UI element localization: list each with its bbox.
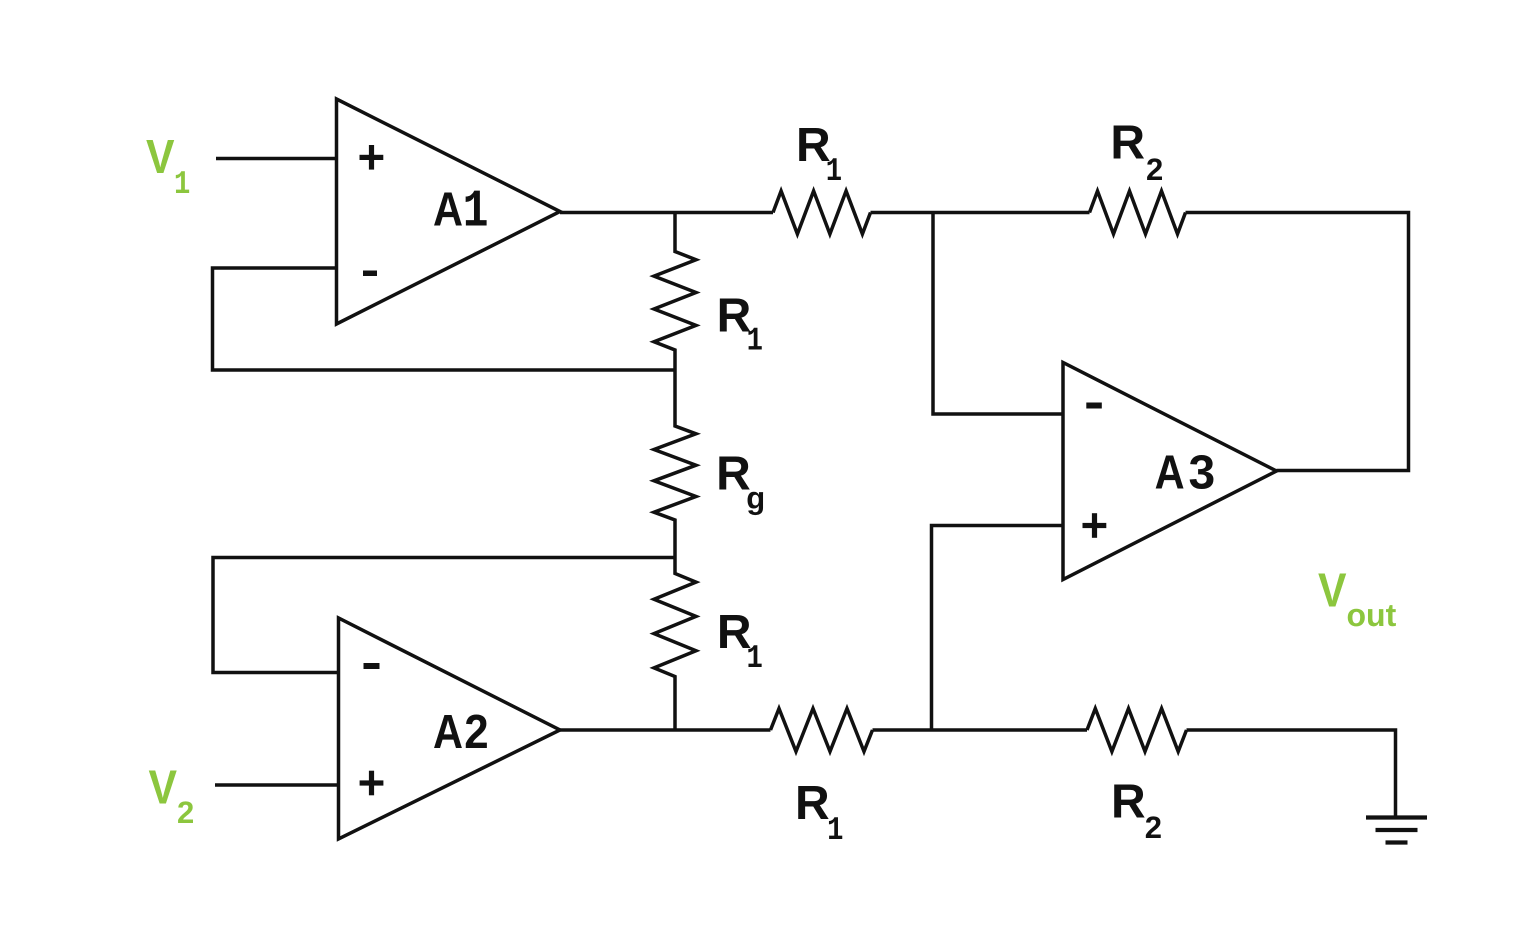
- label Rg: [716, 448, 765, 516]
- resistor R1 top vertical: [654, 213, 696, 371]
- svg-text:R: R: [795, 777, 830, 830]
- label R1 top horizontal: [796, 119, 842, 190]
- A3 noninverting pin marker: [1083, 523, 1107, 528]
- ground: [1366, 815, 1427, 819]
- label R2 bottom: [1111, 776, 1162, 846]
- wire A3 inverting input branch: [933, 213, 1063, 415]
- svg-text:V: V: [149, 762, 178, 815]
- svg-text:1: 1: [174, 166, 190, 203]
- op-amp A1 label: [433, 182, 488, 242]
- resistor Rg: [654, 370, 696, 558]
- A2 inverting pin marker: [364, 663, 380, 669]
- node V1 label: [146, 131, 190, 203]
- resistor R1 bottom horizontal: [771, 709, 873, 752]
- op-amp A1: [337, 99, 561, 324]
- wire V1 to A1 noninverting input: [216, 157, 337, 161]
- wire A2 inverting feedback: [213, 558, 675, 673]
- svg-text:V: V: [1318, 565, 1347, 618]
- wire R1 to R2 top: [871, 211, 1090, 215]
- svg-text:g: g: [746, 481, 765, 516]
- svg-text:R: R: [1111, 776, 1146, 829]
- wire A3 noninverting input branch: [932, 526, 1064, 731]
- svg-text:A: A: [433, 706, 463, 759]
- svg-text:A: A: [1155, 447, 1185, 500]
- label R1 lower vertical: [717, 606, 763, 677]
- A2 noninverting pin marker: [360, 780, 384, 785]
- A1 noninverting pin marker: [360, 155, 384, 160]
- node V2 label: [149, 762, 195, 831]
- svg-text:1: 1: [827, 812, 843, 849]
- svg-text:out: out: [1347, 597, 1397, 633]
- svg-text:2: 2: [464, 706, 488, 759]
- svg-text:R: R: [1110, 117, 1145, 170]
- wire R2 to A3 output feedback corner: [1186, 213, 1409, 471]
- svg-text:A: A: [433, 184, 463, 237]
- wire A1 output to R1: [560, 211, 773, 215]
- label R1 vertical: [717, 290, 763, 360]
- A1 inverting pin marker: [363, 271, 377, 277]
- svg-text:V: V: [146, 131, 175, 184]
- wire V2 to A2 noninverting input: [215, 783, 339, 787]
- op-amp A2 label: [433, 706, 489, 759]
- A3 inverting pin marker: [1086, 403, 1102, 409]
- node Vout label: [1318, 565, 1397, 634]
- svg-text:2: 2: [1146, 152, 1163, 187]
- resistor R1 lower vertical: [654, 558, 696, 731]
- op-amp A2: [339, 618, 561, 839]
- wire A1 inverting feedback: [213, 268, 676, 370]
- label R2 top: [1110, 117, 1163, 188]
- op-amp A3: [1063, 363, 1277, 580]
- svg-text:2: 2: [177, 795, 194, 830]
- svg-text:1: 1: [747, 640, 763, 677]
- svg-text:1: 1: [826, 153, 842, 190]
- svg-text:1: 1: [747, 323, 763, 360]
- op-amp A3 label: [1155, 447, 1216, 500]
- resistor R1 top horizontal: [773, 191, 871, 234]
- resistor R2 top: [1090, 191, 1186, 234]
- svg-text:3: 3: [1189, 447, 1216, 500]
- wire R2 bottom to ground: [1187, 730, 1396, 818]
- wire A2 output to R1 bottom: [560, 728, 771, 732]
- resistor R2 bottom: [1087, 709, 1187, 752]
- wire R1 to R2 bottom: [873, 728, 1088, 732]
- label R1 bottom horizontal: [795, 777, 843, 849]
- svg-text:2: 2: [1145, 810, 1162, 845]
- svg-text:1: 1: [463, 182, 489, 242]
